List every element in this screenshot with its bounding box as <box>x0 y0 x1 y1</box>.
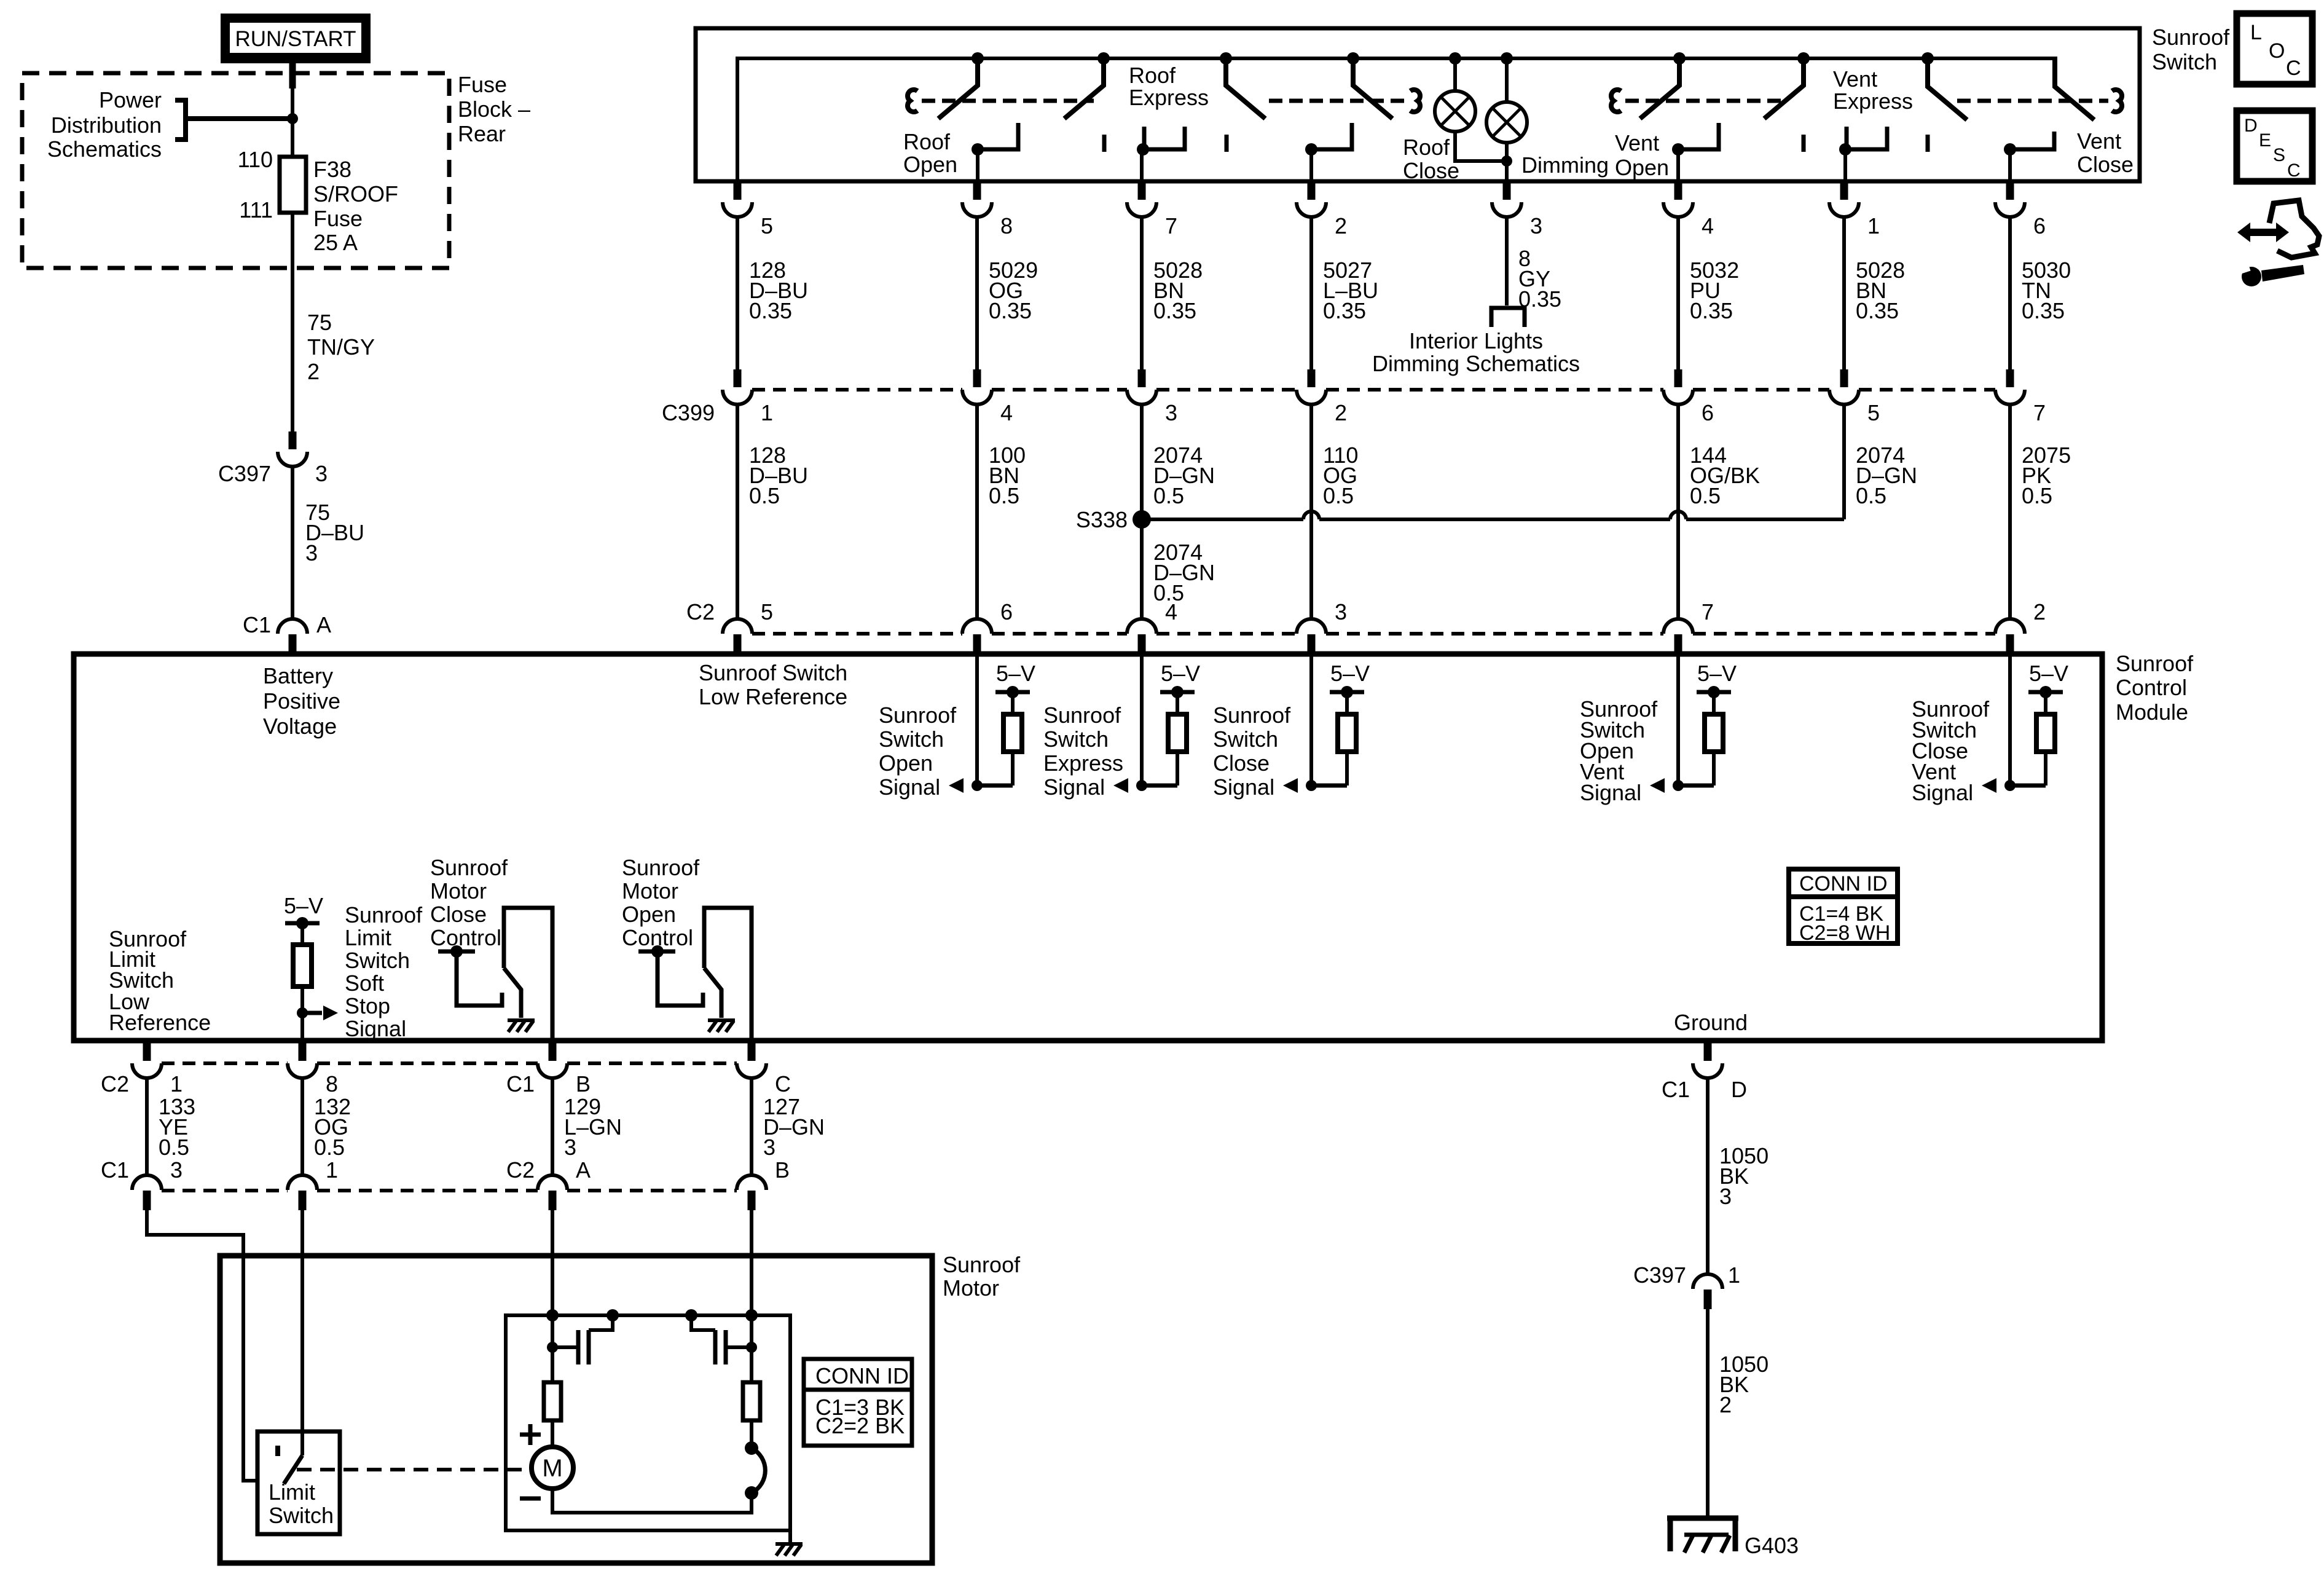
wire lamp 1 to lamp 2 <box>1455 131 1507 161</box>
label Sunroof Control Module <box>2116 651 2194 725</box>
5-V pull-up sunroof switch express signal <box>1142 661 1200 786</box>
connector C399 pin 4 <box>962 369 1013 425</box>
pin 110 label <box>238 147 273 172</box>
svg-text:D: D <box>2244 116 2258 136</box>
wire bus to lamp 1 <box>1449 52 1461 92</box>
wire S338 branch <box>1142 511 1844 519</box>
motor assembly inner box <box>506 1315 790 1530</box>
driver sunroof motor open control <box>638 908 752 1040</box>
svg-text:5–V: 5–V <box>996 661 1035 686</box>
svg-text:Voltage: Voltage <box>263 714 337 739</box>
wire ground 1050 BK 2 <box>1708 1309 1769 1518</box>
svg-text:Roof: Roof <box>1403 135 1450 160</box>
5-V pull-up sunroof switch close vent signal <box>2010 661 2068 786</box>
label Limit Switch <box>269 1479 334 1528</box>
contact stub roof express right <box>1225 135 1229 152</box>
svg-text:6: 6 <box>1702 400 1714 425</box>
connector C399 pin 7 <box>1995 369 2046 425</box>
svg-text:7: 7 <box>1702 599 1714 624</box>
svg-text:0.5: 0.5 <box>2022 483 2052 508</box>
svg-text:B: B <box>576 1071 591 1097</box>
svg-text:5–V: 5–V <box>284 893 323 918</box>
svg-text:G403: G403 <box>1745 1533 1799 1558</box>
splice S338 <box>1076 507 1151 532</box>
switch blade roof open <box>938 52 984 119</box>
svg-text:7: 7 <box>2033 400 2046 425</box>
commutator arc motor B <box>745 1441 765 1500</box>
label Power Distribution Schematics <box>47 87 162 162</box>
connector C2 pin A <box>506 1157 591 1210</box>
wire lamp 2 down <box>1505 142 1509 182</box>
off-page tail interior lights <box>1491 308 1525 327</box>
wire switch common bus <box>737 58 2055 181</box>
svg-text:Control: Control <box>2116 675 2187 700</box>
svg-text:Switch: Switch <box>1213 726 1278 752</box>
label Sunroof Switch Open Signal <box>879 703 957 800</box>
svg-text:Motor: Motor <box>622 878 678 904</box>
svg-text:M: M <box>542 1455 562 1482</box>
svg-text:8: 8 <box>326 1071 338 1097</box>
svg-text:Fuse: Fuse <box>313 206 363 231</box>
5-V pull-up limit switch <box>284 893 323 1013</box>
svg-text:Motor: Motor <box>943 1275 999 1301</box>
svg-text:0.5: 0.5 <box>989 483 1019 508</box>
wire circuit 144 <box>1678 404 1760 620</box>
svg-text:2: 2 <box>1719 1392 1732 1417</box>
contact stub vent express right <box>1926 135 1930 152</box>
wire circuit 5028 <box>1844 217 1905 369</box>
svg-text:1: 1 <box>1867 213 1880 238</box>
svg-text:Open: Open <box>903 152 957 177</box>
connector C397 pin 1 <box>1633 1262 1740 1309</box>
wire circuit 133 <box>147 1078 195 1176</box>
connector C1 pin A <box>243 612 331 654</box>
svg-text:B: B <box>775 1157 790 1183</box>
switch blade vent express left <box>1764 52 1810 119</box>
svg-text:S338: S338 <box>1076 507 1128 532</box>
resistor motor A <box>544 1347 561 1447</box>
wire label 2074 D-GN below S338 <box>1153 540 1215 605</box>
node limit switch signal junction <box>297 1006 338 1020</box>
vent switches linkage dashed <box>1611 90 2122 112</box>
svg-text:Block –: Block – <box>458 96 530 122</box>
wire sunroof switch express signal input <box>1140 652 1144 786</box>
svg-text:C2=8 WH: C2=8 WH <box>1799 921 1890 945</box>
svg-text:Sunroof: Sunroof <box>2116 651 2194 676</box>
svg-text:111: 111 <box>239 197 273 222</box>
node sunroof switch close signal junction <box>1283 778 1317 793</box>
conn id table motor <box>804 1359 912 1446</box>
node sunroof switch open vent signal junction <box>1650 778 1684 793</box>
connector C1 pin C <box>737 1043 791 1097</box>
wire sunroof switch open signal input <box>975 652 979 786</box>
node sunroof switch express signal junction <box>1113 778 1147 793</box>
svg-text:C397: C397 <box>1633 1262 1686 1288</box>
label Sunroof Switch Close Signal <box>1213 703 1291 800</box>
connector C399 dashed row <box>752 388 1995 392</box>
connector sunroof switch pin 5 <box>723 182 773 238</box>
svg-text:Close: Close <box>1403 158 1459 183</box>
svg-text:1: 1 <box>170 1071 183 1097</box>
label Sunroof Switch <box>2152 25 2230 74</box>
svg-text:Sunroof Switch: Sunroof Switch <box>699 660 847 685</box>
switch blade vent express right <box>1922 52 1967 120</box>
wire circuit 5027 <box>1311 217 1378 369</box>
label F38 S/ROOF Fuse 25 A <box>313 157 398 255</box>
svg-text:0.35: 0.35 <box>749 298 792 323</box>
svg-text:Switch: Switch <box>879 726 944 752</box>
svg-text:Signal: Signal <box>345 1016 406 1041</box>
svg-text:Vent: Vent <box>1615 130 1659 156</box>
svg-text:Close: Close <box>430 902 487 927</box>
svg-text:3: 3 <box>1719 1184 1732 1209</box>
label Interior Lights Dimming Schematics <box>1372 328 1580 376</box>
svg-text:Sunroof: Sunroof <box>943 1252 1021 1277</box>
wire motor negative <box>750 1210 753 1347</box>
svg-text:Sunroof: Sunroof <box>622 855 700 880</box>
svg-text:L: L <box>2250 21 2262 44</box>
node lamp junction <box>1501 156 1512 167</box>
label C2 <box>686 599 715 624</box>
label Dimming <box>1521 152 1609 178</box>
svg-text:Battery: Battery <box>263 663 333 688</box>
connector C2 pin 2 <box>1995 599 2046 654</box>
svg-text:Sunroof: Sunroof <box>345 902 423 927</box>
connector row C1/C2 dashed lower <box>162 1189 737 1192</box>
svg-text:CONN ID: CONN ID <box>1799 872 1888 896</box>
wire ground 1050 BK 3 <box>1708 1078 1769 1275</box>
wire vent close contact to pin <box>2008 149 2012 182</box>
svg-text:F38: F38 <box>313 157 351 182</box>
switch blade roof close <box>1347 52 1392 119</box>
wire motor positive <box>551 1210 554 1347</box>
wire circuit 5032 <box>1678 217 1739 369</box>
svg-text:0.5: 0.5 <box>1690 483 1721 508</box>
svg-text:Low Reference: Low Reference <box>699 684 847 709</box>
wire circuit 129 <box>552 1078 622 1176</box>
wire junction to fuse F38 <box>291 119 294 159</box>
sunroof switch box <box>696 28 2140 181</box>
switch blade roof express left <box>1064 52 1110 119</box>
svg-text:0.35: 0.35 <box>1323 298 1366 323</box>
svg-text:5–V: 5–V <box>1330 661 1370 686</box>
LOC box icon <box>2237 14 2312 84</box>
label Sunroof Switch Express Signal <box>1043 703 1123 800</box>
ground motor close driver <box>508 1020 535 1032</box>
fuse F38 S/ROOF 25A <box>280 157 306 213</box>
svg-text:6: 6 <box>1000 599 1013 624</box>
svg-text:0.35: 0.35 <box>1856 298 1899 323</box>
svg-text:3: 3 <box>1530 213 1542 238</box>
wire fuse to C397 <box>291 213 294 431</box>
connector C397 pin 3 <box>218 431 328 486</box>
node motor wire A crossing <box>546 1309 559 1321</box>
label Ground <box>1674 1010 1748 1035</box>
svg-text:6: 6 <box>2033 213 2046 238</box>
blade limit switch <box>284 1455 302 1484</box>
svg-text:Switch: Switch <box>1043 726 1109 752</box>
svg-text:3: 3 <box>564 1135 576 1160</box>
wire roof open contact to pin <box>976 149 979 182</box>
label Sunroof Motor <box>943 1252 1021 1301</box>
contact roof express <box>1137 127 1185 156</box>
fuse block rear dashed box <box>22 73 449 268</box>
connector C399 pin 1 <box>723 369 773 425</box>
connector C2 pin 6 <box>962 599 1013 654</box>
wire limit switch feed jog <box>147 1210 257 1481</box>
svg-text:Positive: Positive <box>263 688 340 714</box>
connector C2 pin 7 <box>1663 599 1714 654</box>
wire circuit 100 <box>977 404 1026 620</box>
svg-text:Reference: Reference <box>109 1010 211 1035</box>
connector C2 pin 1 <box>101 1043 183 1097</box>
connector C2 pin B <box>737 1157 790 1210</box>
connector C2 pin 3 <box>1297 599 1347 654</box>
ground G403 <box>1667 1518 1738 1553</box>
contact vent open <box>1672 123 1719 156</box>
contact stub vent express left <box>1802 135 1806 152</box>
svg-text:3: 3 <box>763 1135 775 1160</box>
svg-text:Motor: Motor <box>430 878 487 904</box>
connector row C2/C1 dashed upper <box>162 1061 737 1065</box>
svg-text:1: 1 <box>326 1157 338 1183</box>
ground motor case <box>775 1530 803 1556</box>
connector C2 pin 4 <box>1127 599 1177 654</box>
wire sunroof switch close vent signal input <box>2008 652 2012 786</box>
svg-text:A: A <box>576 1157 591 1183</box>
bracket and wire from Power Distribution Schematics <box>175 100 292 140</box>
wire circuit 110 <box>1311 404 1358 620</box>
svg-text:Roof: Roof <box>1129 63 1176 88</box>
svg-text:0.5: 0.5 <box>1323 483 1354 508</box>
connector sunroof switch pin 3 <box>1492 182 1542 238</box>
node sunroof switch open signal junction <box>949 778 983 793</box>
svg-text:Soft: Soft <box>345 971 384 996</box>
svg-text:0.5: 0.5 <box>314 1135 345 1160</box>
svg-text:25 A: 25 A <box>313 230 358 255</box>
label motor minus <box>520 1497 541 1501</box>
wire circuit 127 <box>752 1078 825 1176</box>
svg-text:Signal: Signal <box>1213 774 1274 800</box>
svg-text:0.5: 0.5 <box>159 1135 189 1160</box>
svg-text:Sunroof: Sunroof <box>2152 25 2230 50</box>
svg-text:Ground: Ground <box>1674 1010 1748 1035</box>
svg-text:110: 110 <box>238 147 273 172</box>
svg-text:Signal: Signal <box>879 774 940 800</box>
wire sunroof limit switch soft stop input <box>300 1013 304 1040</box>
connector sunroof switch pin 7 <box>1127 182 1177 238</box>
svg-text:5: 5 <box>761 213 773 238</box>
svg-text:Open: Open <box>1615 155 1669 180</box>
svg-text:Rear: Rear <box>458 121 506 146</box>
wire circuit 132 <box>302 1078 351 1176</box>
wire circuit 128 <box>737 217 808 369</box>
wire sunroof switch close signal input <box>1309 652 1313 786</box>
connector C2 dashed row <box>752 632 1995 636</box>
svg-text:Fuse: Fuse <box>458 72 507 97</box>
contact limit switch <box>275 1446 280 1456</box>
svg-text:S/ROOF: S/ROOF <box>313 181 398 207</box>
label Fuse Block - Rear <box>458 72 530 146</box>
contact vent close <box>2004 132 2054 156</box>
svg-text:3: 3 <box>315 461 328 486</box>
svg-text:Switch: Switch <box>2152 49 2217 74</box>
wire circuit 5030 <box>2010 217 2071 369</box>
svg-text:0.5: 0.5 <box>1153 483 1184 508</box>
svg-text:Open: Open <box>879 750 933 776</box>
svg-text:Dimming Schematics: Dimming Schematics <box>1372 351 1580 376</box>
svg-text:1: 1 <box>761 400 773 425</box>
wire circuit 8 GY dimming <box>1507 217 1561 312</box>
wire RUN/START to fuse block <box>289 63 296 119</box>
svg-text:E: E <box>2259 130 2271 151</box>
svg-text:C2: C2 <box>506 1157 535 1183</box>
switch blade roof express right <box>1220 52 1265 119</box>
svg-text:3: 3 <box>305 540 318 565</box>
svg-text:Distribution: Distribution <box>51 112 162 138</box>
svg-text:75: 75 <box>307 310 332 335</box>
svg-text:A: A <box>316 612 331 637</box>
connector C1 pin D ground <box>1662 1043 1747 1102</box>
label C399 <box>662 400 715 425</box>
svg-text:Express: Express <box>1043 750 1123 776</box>
svg-text:0.35: 0.35 <box>1153 298 1196 323</box>
roof switches linkage dashed <box>908 90 1420 112</box>
svg-text:RUN/START: RUN/START <box>235 27 356 51</box>
svg-text:Signal: Signal <box>1912 780 1973 805</box>
label Sunroof Motor Close Control <box>430 855 508 950</box>
svg-text:S: S <box>2273 145 2285 165</box>
svg-text:Vent: Vent <box>2077 128 2121 154</box>
svg-text:C: C <box>2287 160 2301 181</box>
shift arrow wrench icon <box>2237 200 2319 286</box>
svg-text:Sunroof: Sunroof <box>1213 703 1291 728</box>
svg-text:2: 2 <box>1335 213 1347 238</box>
label motor plus <box>520 1424 541 1445</box>
svg-text:Sunroof: Sunroof <box>879 703 957 728</box>
connector sunroof switch pin 2 <box>1297 182 1347 238</box>
wire circuit 2075 <box>2010 404 2071 620</box>
connector sunroof switch pin 6 <box>1995 182 2046 238</box>
connector C399 pin 2 <box>1297 369 1347 425</box>
connector C1 pin 3 <box>101 1157 183 1210</box>
svg-text:4: 4 <box>1000 400 1013 425</box>
connector sunroof switch pin 1 <box>1829 182 1880 238</box>
svg-text:5–V: 5–V <box>1161 661 1200 686</box>
svg-text:D: D <box>1731 1077 1747 1102</box>
svg-text:C1: C1 <box>243 612 271 637</box>
RUN/START power source box <box>221 14 371 63</box>
svg-text:3: 3 <box>170 1157 183 1183</box>
svg-text:2: 2 <box>2033 599 2046 624</box>
capacitor motor B <box>685 1309 757 1364</box>
svg-text:C: C <box>2286 57 2301 80</box>
svg-text:0.5: 0.5 <box>1856 483 1886 508</box>
svg-text:1: 1 <box>1728 1262 1740 1288</box>
svg-text:0.35: 0.35 <box>1690 298 1733 323</box>
svg-text:O: O <box>2269 39 2285 63</box>
svg-text:0.35: 0.35 <box>989 298 1032 323</box>
sunroof motor box <box>220 1256 932 1563</box>
connector C1 pin B <box>506 1043 591 1097</box>
svg-text:C: C <box>775 1071 791 1097</box>
node sunroof switch close vent signal junction <box>1982 778 2016 793</box>
svg-text:Vent: Vent <box>1833 66 1877 92</box>
svg-text:TN/GY: TN/GY <box>307 334 375 360</box>
sunroof control module box <box>74 654 2102 1041</box>
contact stub roof express left <box>1102 135 1107 152</box>
svg-text:Stop: Stop <box>345 993 390 1018</box>
svg-text:Module: Module <box>2116 699 2188 725</box>
svg-text:Sunroof: Sunroof <box>1043 703 1121 728</box>
switch blade vent open <box>1640 52 1686 119</box>
svg-text:2: 2 <box>1335 400 1347 425</box>
svg-text:C397: C397 <box>218 461 271 486</box>
switch blade vent close <box>2055 57 2094 120</box>
connector sunroof switch pin 4 <box>1663 182 1714 238</box>
svg-text:C1: C1 <box>101 1157 129 1183</box>
svg-text:Interior Lights: Interior Lights <box>1409 328 1543 353</box>
wire vent open contact to pin <box>1676 149 1680 182</box>
svg-text:Switch: Switch <box>269 1503 334 1528</box>
motor M <box>532 1447 573 1489</box>
svg-text:Open: Open <box>622 902 676 927</box>
svg-text:0.5: 0.5 <box>749 483 780 508</box>
label Vent Open <box>1615 130 1669 180</box>
resistor motor B <box>743 1347 760 1448</box>
svg-text:Express: Express <box>1129 85 1209 110</box>
label Sunroof Switch Close Vent Signal <box>1912 696 1990 805</box>
wire sunroof switch open vent signal input <box>1676 652 1680 786</box>
wire motor bottom loop <box>552 1489 752 1513</box>
svg-text:C1: C1 <box>1662 1077 1690 1102</box>
conn id table module <box>1789 869 1898 945</box>
connector C399 pin 6 <box>1663 369 1714 425</box>
svg-text:Power: Power <box>99 87 162 112</box>
svg-text:Express: Express <box>1833 89 1913 114</box>
wire circuit 128 <box>737 404 808 620</box>
svg-text:4: 4 <box>1165 599 1177 624</box>
connector C399 pin 3 <box>1127 369 1177 425</box>
svg-text:Switch: Switch <box>345 948 410 973</box>
svg-text:Close: Close <box>1213 750 1270 776</box>
capacitor motor A <box>547 1309 619 1364</box>
svg-text:5–V: 5–V <box>1697 661 1737 686</box>
wire roof express contact to pin <box>1140 149 1144 182</box>
wire roof close contact to pin <box>1309 149 1313 182</box>
connector sunroof switch pin 8 <box>962 182 1013 238</box>
label Sunroof Switch Low Reference <box>699 660 847 709</box>
svg-text:Signal: Signal <box>1580 780 1641 805</box>
svg-text:Roof: Roof <box>903 129 951 154</box>
pin 111 label <box>239 197 273 222</box>
node motor wire B crossing <box>745 1309 758 1321</box>
5-V pull-up sunroof switch open signal <box>977 661 1035 786</box>
DESC box icon <box>2237 111 2312 181</box>
svg-text:Dimming: Dimming <box>1521 152 1609 178</box>
wire C397 to C1 A <box>291 467 294 620</box>
label Roof Open <box>903 129 957 177</box>
svg-text:C2: C2 <box>101 1071 129 1097</box>
svg-text:Sunroof: Sunroof <box>430 855 508 880</box>
svg-text:7: 7 <box>1165 213 1177 238</box>
svg-text:Control: Control <box>430 925 501 950</box>
connector C2 pin 8 <box>288 1043 338 1097</box>
linkage limit switch to motor dashed <box>297 1468 530 1471</box>
svg-text:Schematics: Schematics <box>47 136 162 162</box>
svg-text:CONN ID: CONN ID <box>815 1363 909 1388</box>
limit switch box <box>257 1431 340 1534</box>
